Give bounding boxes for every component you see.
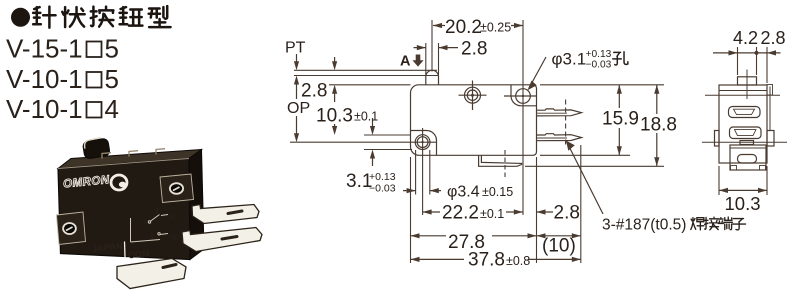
end view bottom dim extension lines: [719, 166, 767, 195]
operating position line: [294, 75, 439, 77]
svg-text:V-10-1: V-10-1: [6, 94, 83, 124]
end view bottom block: [730, 145, 766, 170]
bottom-left mounting boss: [411, 131, 437, 156]
end view arrowheads: [729, 50, 738, 55]
terminal C (bottom): [117, 259, 186, 289]
svg-text:±0.15: ±0.15: [482, 185, 513, 199]
dim 22.2 line: [423, 211, 523, 213]
extension line body bottom right: [540, 154, 630, 156]
A pointer filled arrow: [412, 55, 423, 67]
svg-text:±0.1: ±0.1: [354, 110, 378, 124]
dim 2.8 top lines: [414, 47, 459, 49]
spring hook below body: [479, 155, 522, 166]
svg-text:NO: NO: [170, 235, 179, 241]
svg-text:φ3.1: φ3.1: [552, 50, 587, 69]
dim 27.8 line: [411, 235, 537, 237]
svg-text:1: 1: [143, 219, 147, 226]
dim PT stems: [296, 54, 298, 99]
end view top dim line: [713, 52, 781, 54]
svg-text:5: 5: [105, 64, 119, 94]
dim 20.2 line: [433, 25, 523, 27]
front face: [58, 159, 190, 260]
terminal 2: [537, 134, 582, 141]
svg-text:2: 2: [155, 208, 159, 215]
end view small tab below middle slot: [740, 141, 754, 145]
mounting ear bottom-left: [57, 212, 86, 245]
svg-text:PT: PT: [285, 40, 306, 57]
title bullet: [11, 8, 30, 27]
end view top dim extension lines: [738, 47, 768, 83]
dim 15.9 stems: [618, 85, 620, 156]
svg-text:4: 4: [105, 94, 119, 124]
body top extension line left: [329, 84, 411, 86]
free position line: [294, 69, 437, 71]
svg-text:10.3: 10.3: [316, 106, 353, 127]
end view hole centerline upper: [705, 94, 780, 96]
circuit marking: [131, 215, 169, 243]
terminal 1: [537, 109, 582, 116]
svg-text:OP: OP: [287, 100, 310, 117]
dim OP stem: [296, 116, 298, 139]
leader phi3.1: [529, 57, 546, 88]
end view hole centerline lower: [702, 141, 787, 143]
svg-text:2.8: 2.8: [761, 28, 786, 48]
white ring mark: [111, 175, 127, 190]
end view case: [719, 85, 767, 163]
dim 37.8 line: [411, 258, 581, 260]
end view left wing: [715, 131, 720, 147]
separator line: [124, 242, 127, 258]
title char 钮: [120, 7, 143, 26]
svg-text:φ3.4: φ3.4: [447, 184, 480, 201]
svg-text:±0.8: ±0.8: [506, 254, 530, 268]
top face vent marks: [102, 149, 165, 159]
svg-text:10.3: 10.3: [725, 193, 761, 214]
switch body outline (side view): [411, 85, 537, 156]
svg-text:2.8: 2.8: [461, 39, 487, 60]
extension line hook bottom right: [525, 165, 664, 167]
hook dashed centerline: [504, 150, 506, 177]
svg-text:18.8: 18.8: [640, 114, 677, 135]
end view bottom slot: [738, 155, 757, 164]
kanji 焊: [691, 218, 704, 230]
top face: [58, 150, 202, 169]
svg-text:±0.1: ±0.1: [480, 207, 504, 221]
hole bottom-left centerline vertical: [422, 128, 424, 215]
svg-text:4.2: 4.2: [733, 28, 758, 48]
pin plunger dome: [426, 70, 439, 85]
dim 3.1 stems: [372, 118, 374, 166]
extension verticals bottom dims: [410, 157, 412, 263]
mounting ear top-right: [160, 174, 194, 203]
rivet circles: [465, 87, 481, 103]
svg-text:−0.03: −0.03: [586, 60, 612, 71]
title char 型: [149, 6, 171, 27]
rivet crosshair: [459, 81, 487, 111]
svg-text:2.8: 2.8: [554, 203, 580, 224]
hole tangent extension bottom: [364, 149, 412, 151]
end view top slot: [729, 107, 761, 118]
svg-text:37.8: 37.8: [468, 250, 505, 271]
end view middle slot: [730, 127, 762, 139]
dim (10) line: [537, 235, 581, 237]
kanji 孔 (hole): [613, 52, 628, 65]
svg-text:22.2: 22.2: [442, 203, 479, 224]
svg-text:15.9: 15.9: [602, 108, 639, 129]
svg-text:COM: COM: [128, 248, 151, 260]
svg-text:V-10-1: V-10-1: [6, 64, 83, 94]
svg-text:5: 5: [105, 34, 119, 64]
hole top-right centerline vertical: [522, 20, 524, 215]
svg-text:−0.03: −0.03: [369, 183, 396, 195]
end view pin centerline: [746, 70, 748, 100]
end view right wing: [767, 131, 774, 147]
hole bottom-left centerline horizontal (long reference line): [290, 141, 436, 143]
svg-text:(10): (10): [542, 236, 576, 257]
terminal A (upper right): [192, 205, 259, 224]
end view right side reveal: [769, 87, 771, 131]
svg-text:A: A: [400, 54, 411, 70]
svg-text:2.8: 2.8: [301, 81, 327, 102]
title char 针: [33, 7, 55, 28]
end view bottom dim line: [719, 189, 767, 191]
svg-text:3: 3: [150, 233, 154, 240]
leader 3-#187: [566, 141, 603, 215]
hole top-right crosshair horizontal: [504, 95, 537, 97]
dim phi3.4 lines: [403, 190, 441, 192]
title char 状: [62, 7, 84, 27]
terminal B (lower right): [182, 228, 262, 252]
right face: [189, 150, 204, 260]
terminal dashed line: [565, 100, 567, 148]
title char 按: [91, 7, 114, 27]
kanji 端: [718, 217, 732, 230]
top-right mounting boss: [511, 85, 537, 106]
svg-text:V-15-1: V-15-1: [6, 34, 83, 64]
mounting hole top-right: [516, 89, 531, 104]
dim 2.8 right tail: [537, 211, 554, 213]
end view pin: [738, 77, 757, 85]
svg-text:+0.13: +0.13: [369, 171, 396, 183]
arrowheads: [433, 23, 442, 28]
kanji 子: [732, 219, 745, 230]
svg-text:20.2: 20.2: [445, 17, 482, 38]
svg-text:+0.13: +0.13: [586, 49, 612, 60]
extension verticals top dims: [431, 20, 433, 72]
svg-text:±0.25: ±0.25: [480, 21, 511, 35]
end view feet: [731, 166, 737, 171]
extension line body top right: [540, 84, 664, 86]
dim 2.8 left stems: [334, 57, 336, 102]
dim 10.3 stem: [334, 124, 336, 132]
dim 18.8 stems: [656, 85, 658, 167]
hole tangent extension top: [364, 134, 411, 136]
svg-text:3-#187(t0.5): 3-#187(t0.5): [602, 217, 686, 234]
front top edge highlight: [58, 159, 189, 169]
kanji 接: [705, 217, 719, 230]
mounting hole bottom-left: [415, 135, 430, 150]
plunger pin 3d: [82, 137, 110, 160]
svg-text:NC: NC: [169, 215, 178, 221]
